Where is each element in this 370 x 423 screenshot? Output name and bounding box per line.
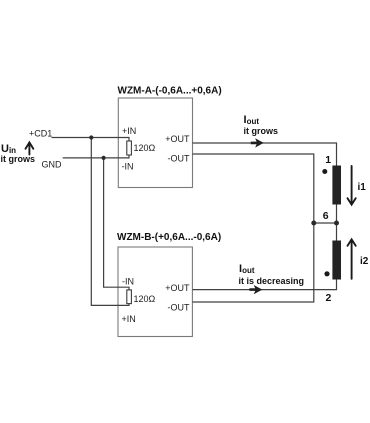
flow arrow on +OUT A wire — [251, 138, 264, 147]
svg-text:-OUT: -OUT — [168, 153, 190, 163]
load 2 bar — [332, 241, 341, 280]
svg-text:+IN: +IN — [122, 314, 136, 324]
junction dot on +CD1 wire — [89, 135, 93, 139]
wire GND branch down to -IN B — [104, 158, 129, 290]
wire +OUT A to load 1 — [193, 143, 337, 166]
wire load1 bottom through node to load2 top — [336, 205, 338, 241]
resistor R-A 120 ohm — [127, 141, 132, 155]
arrow up Uin — [26, 142, 34, 154]
load 1 bar — [332, 166, 341, 205]
svg-text:6: 6 — [323, 210, 329, 222]
svg-text:+CD1: +CD1 — [29, 129, 52, 139]
svg-text:it grows: it grows — [244, 126, 279, 136]
polarity dot load 2 — [324, 271, 329, 276]
svg-text:WZM-A-(-0,6A...+0,6A): WZM-A-(-0,6A...+0,6A) — [118, 86, 222, 97]
svg-text:-IN: -IN — [122, 276, 134, 286]
svg-text:+OUT: +OUT — [165, 134, 190, 144]
resistor R-B 120 ohm — [127, 290, 132, 304]
svg-text:+IN: +IN — [122, 126, 136, 136]
svg-text:it grows: it grows — [1, 154, 36, 164]
wire +CD1 to resistor A top — [52, 138, 130, 142]
svg-text:+OUT: +OUT — [165, 283, 190, 293]
svg-text:1: 1 — [325, 154, 331, 166]
wire node 6 down to -OUT B — [193, 223, 314, 302]
amplifier box WZM-A — [118, 98, 192, 188]
wire +OUT B to load 2 bottom — [193, 280, 337, 290]
svg-text:2: 2 — [326, 292, 332, 304]
flow arrow on +OUT B wire — [249, 285, 262, 294]
svg-text:-OUT: -OUT — [168, 303, 190, 313]
junction dot on GND wire — [102, 156, 106, 160]
junction dot node 6 left — [311, 221, 316, 226]
arrow i2 up — [348, 239, 356, 278]
wire GND to resistor A bottom — [63, 155, 129, 158]
svg-text:it is decreasing: it is decreasing — [239, 276, 305, 286]
wire node 6 horizontal link — [314, 222, 337, 224]
arrow i1 down — [348, 166, 356, 205]
polarity dot load 1 — [322, 169, 327, 174]
svg-text:i2: i2 — [360, 256, 369, 267]
wire -OUT A down to node 6 — [193, 154, 314, 223]
svg-text:i1: i1 — [358, 182, 367, 193]
svg-text:-IN: -IN — [122, 162, 134, 172]
amplifier box WZM-B — [118, 247, 192, 337]
junction dot node 6 right — [334, 221, 339, 226]
svg-text:120Ω: 120Ω — [134, 143, 156, 153]
svg-text:GND: GND — [42, 160, 63, 170]
wire +CD1 branch down to +IN B — [91, 138, 129, 306]
svg-text:WZM-B-(+0,6A...-0,6A): WZM-B-(+0,6A...-0,6A) — [117, 232, 221, 243]
svg-text:120Ω: 120Ω — [134, 294, 156, 304]
